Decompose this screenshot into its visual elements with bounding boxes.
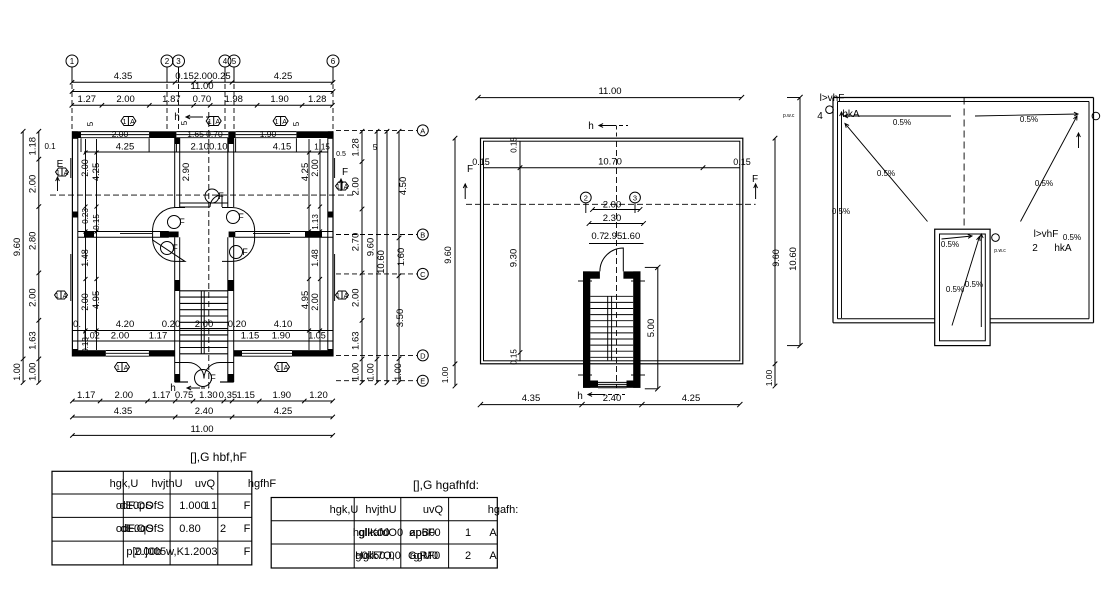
svg-text:2: 2 — [465, 550, 471, 562]
svg-text:1: 1 — [55, 293, 59, 300]
right plan left dim 10.60 — [787, 95, 803, 348]
right dim column room heights — [393, 129, 409, 385]
svg-text:2.00: 2.00 — [112, 129, 129, 139]
svg-text:1.18: 1.18 — [28, 137, 39, 156]
svg-text:1.000: 1.000 — [179, 500, 207, 512]
top dim row 3 line — [70, 103, 335, 107]
svg-text:2.40: 2.40 — [603, 393, 622, 404]
section mark h bottom — [170, 383, 209, 394]
svg-text:1.90: 1.90 — [260, 129, 277, 139]
svg-text:0.5%: 0.5% — [832, 207, 850, 216]
svg-text:0.70: 0.70 — [193, 94, 212, 105]
svg-text:0.5%: 0.5% — [965, 280, 983, 289]
top dim row 2 line 11.00 — [70, 89, 335, 93]
svg-text:10.60: 10.60 — [376, 250, 387, 274]
svg-text:2.00: 2.00 — [351, 288, 362, 307]
svg-text:F: F — [467, 164, 473, 175]
mid dim 0.70 2.95 1.60 overlap — [589, 231, 644, 244]
svg-text:6: 6 — [331, 57, 336, 66]
svg-text:2.00: 2.00 — [111, 331, 130, 342]
roof centerline dashed — [963, 98, 965, 230]
svg-text:9.60: 9.60 — [366, 238, 377, 257]
svg-text:4.50: 4.50 — [398, 177, 409, 196]
top wall black segments with window gaps — [72, 131, 333, 138]
svg-text:1: 1 — [70, 57, 75, 66]
svg-text:1.90: 1.90 — [272, 331, 291, 342]
svg-text:D: D — [420, 351, 426, 360]
rotated 0.15 labels top — [86, 120, 378, 158]
slope arrow top-left horizontal — [844, 114, 951, 127]
lintel tag top 1 — [121, 117, 136, 127]
mid grid bubbles 2 3 — [580, 192, 640, 213]
svg-text:A: A — [124, 365, 129, 372]
svg-text:GgM0: GgM0 — [408, 550, 438, 562]
svg-text:1: 1 — [208, 119, 212, 126]
roof drain top-left — [826, 106, 834, 114]
interior right vertical dim texts — [300, 159, 320, 311]
svg-text:1.05: 1.05 — [308, 331, 326, 341]
bottom dim row 1 — [70, 390, 335, 403]
grid bubble 6 — [327, 55, 339, 82]
mid centerline dashed — [616, 141, 618, 388]
section mark h top — [174, 112, 209, 123]
bulkhead right vertical line arrow — [979, 234, 983, 327]
svg-text:1: 1 — [122, 119, 126, 126]
svg-text:5: 5 — [86, 121, 95, 126]
svg-text:hkA: hkA — [1054, 243, 1072, 254]
stair shaft right wall — [228, 138, 234, 382]
svg-text:11.00: 11.00 — [598, 86, 621, 97]
svg-text:A: A — [282, 119, 287, 126]
svg-text:1.63: 1.63 — [28, 331, 39, 350]
svg-text:4.35: 4.35 — [114, 71, 133, 82]
stair treads — [180, 291, 228, 354]
svg-text:0.5%: 0.5% — [893, 118, 911, 127]
right table header text — [330, 504, 519, 516]
svg-text:4.35: 4.35 — [114, 406, 133, 417]
svg-text:4.35: 4.35 — [522, 393, 541, 404]
svg-text:p.w.c: p.w.c — [994, 248, 1006, 254]
interior left vertical dim texts — [80, 159, 102, 353]
svg-text:1: 1 — [56, 170, 60, 177]
svg-text:1.60: 1.60 — [396, 248, 407, 267]
svg-text:2: 2 — [584, 194, 588, 203]
svg-text:11.00: 11.00 — [190, 81, 213, 92]
svg-text:1.90: 1.90 — [273, 390, 292, 401]
svg-text:l>vhF: l>vhF — [1034, 229, 1059, 240]
svg-text:[],G hgafhfd:: [],G hgafhfd: — [413, 478, 479, 492]
svg-text:h: h — [588, 121, 594, 132]
svg-text:h: h — [577, 391, 583, 402]
svg-text:2.30: 2.30 — [603, 213, 622, 224]
svg-text:1.60: 1.60 — [622, 231, 641, 242]
section dashed vertical centerline — [208, 112, 210, 392]
svg-text:2.70: 2.70 — [351, 233, 362, 252]
svg-text:F: F — [172, 243, 178, 253]
svg-text:hvjthU: hvjthU — [151, 478, 182, 490]
mid shaft wall dim ticks — [578, 281, 645, 375]
svg-text:1.00: 1.00 — [393, 363, 403, 381]
svg-text:4.15: 4.15 — [273, 142, 292, 153]
left outer dim 9.60 1.00 — [12, 129, 25, 385]
svg-text:0.5%: 0.5% — [1063, 233, 1081, 242]
slope arrow right edge small — [1077, 133, 1081, 148]
svg-text:2.95: 2.95 — [604, 231, 623, 242]
hall door tag circles with F — [161, 211, 249, 259]
stair room door arc top — [205, 189, 224, 207]
svg-text:C: C — [420, 270, 426, 279]
svg-text:2.00: 2.00 — [80, 293, 90, 311]
svg-text:0.15: 0.15 — [733, 157, 751, 167]
svg-text:[],G hbf,hF: [],G hbf,hF — [190, 450, 247, 464]
svg-text:dE0qS: dE0qS — [120, 523, 153, 535]
mid section line F-F dashed — [463, 164, 758, 204]
top-centre small room bottom wall — [180, 203, 228, 207]
svg-text:4.25: 4.25 — [274, 406, 293, 417]
svg-text:F: F — [244, 523, 251, 535]
interior top room dim texts — [84, 129, 330, 153]
svg-text:0.15: 0.15 — [510, 137, 519, 153]
svg-text:4: 4 — [223, 57, 228, 66]
shaft bottom walls and door jambs — [175, 363, 234, 383]
svg-text:0.: 0. — [73, 319, 81, 330]
svg-text:2.80: 2.80 — [28, 232, 39, 251]
svg-text:1.17: 1.17 — [149, 331, 168, 342]
window tag right upper — [336, 182, 349, 191]
right table row 2 — [355, 550, 497, 562]
svg-text:glIK00: glIK00 — [358, 527, 389, 539]
svg-text:uvQ: uvQ — [195, 478, 216, 490]
svg-text:1: 1 — [465, 527, 471, 539]
svg-text:4.25: 4.25 — [91, 163, 102, 182]
svg-text:2.00: 2.00 — [603, 200, 622, 211]
interior horizontal wall — [78, 232, 333, 238]
svg-text:2.00: 2.00 — [310, 159, 320, 177]
roof outline inner — [838, 102, 1090, 319]
bottom dim row 2 — [70, 406, 335, 419]
svg-text:1.20: 1.20 — [309, 390, 328, 401]
svg-text:1.00: 1.00 — [764, 369, 774, 386]
svg-text:4.25: 4.25 — [274, 71, 293, 82]
svg-text:uvQ: uvQ — [423, 504, 444, 516]
svg-text:9.60: 9.60 — [443, 246, 453, 264]
mid section mark h top — [588, 121, 628, 138]
svg-text:1.48: 1.48 — [80, 249, 90, 267]
stair shaft left wall — [175, 138, 180, 382]
mid left dim 9.60 1.00 — [440, 136, 457, 388]
svg-text:A: A — [344, 293, 349, 300]
svg-text:2: 2 — [1032, 243, 1038, 254]
slope arrow diagonal right — [1021, 116, 1078, 222]
svg-text:2.00: 2.00 — [351, 177, 362, 196]
roof drain bulkhead — [992, 234, 1006, 254]
grid axis dashed leaders — [72, 84, 333, 131]
svg-text:1.00: 1.00 — [366, 363, 376, 381]
left table header text — [110, 478, 277, 490]
svg-text:5.00: 5.00 — [646, 319, 657, 338]
svg-text:2.00: 2.00 — [310, 293, 320, 311]
svg-text:hgk,U: hgk,U — [330, 504, 359, 516]
bulkhead top horizontal arrow — [941, 235, 972, 250]
svg-text:1.15: 1.15 — [236, 390, 255, 401]
svg-text:0,15: 0,15 — [510, 349, 519, 365]
top dim row 1 line — [70, 80, 335, 84]
svg-text:1.63: 1.63 — [351, 331, 362, 350]
mid inner dim 10.70 line — [472, 157, 751, 171]
window tag left lower — [55, 291, 68, 300]
mid dim 5.00 shaft — [645, 265, 661, 392]
svg-text:A: A — [64, 170, 69, 177]
interior left vertical dim lines — [84, 139, 99, 350]
svg-text:1.00: 1.00 — [28, 363, 39, 382]
svg-text:2: 2 — [165, 57, 170, 66]
svg-text:1: 1 — [116, 365, 120, 372]
svg-text:2.90: 2.90 — [181, 163, 192, 182]
window tag right lower — [336, 291, 349, 300]
grid bubble 4 — [219, 55, 231, 82]
svg-text:1.00: 1.00 — [351, 363, 362, 382]
svg-text:A: A — [130, 119, 135, 126]
svg-text:10.70: 10.70 — [598, 157, 622, 168]
slope arrow left edge vertical — [832, 112, 850, 318]
window tag left upper — [56, 168, 69, 177]
svg-text:0.15: 0.15 — [92, 214, 101, 230]
svg-text:3: 3 — [176, 57, 181, 66]
roof drain top-right — [1092, 112, 1100, 120]
svg-text:0.15: 0.15 — [472, 157, 490, 167]
mid stair door arc — [600, 248, 623, 271]
svg-text:hvjthU: hvjthU — [365, 504, 396, 516]
grid bubble 3 — [173, 55, 185, 82]
svg-text:2.00: 2.00 — [28, 175, 39, 194]
svg-text:hgafh:: hgafh: — [488, 504, 519, 516]
svg-text:2.40: 2.40 — [195, 406, 214, 417]
interior right vertical dim lines — [307, 139, 322, 350]
svg-text:4.20: 4.20 — [116, 319, 135, 330]
svg-text:1: 1 — [336, 293, 340, 300]
svg-text:0.80: 0.80 — [179, 523, 200, 535]
left table row 3 — [126, 546, 250, 558]
mid right dim 9.60 1.00 — [764, 136, 781, 388]
svg-text:A: A — [284, 365, 289, 372]
right dim column 1 — [351, 129, 365, 385]
svg-text:0.75: 0.75 — [175, 390, 194, 401]
svg-text:2.00: 2.00 — [28, 288, 39, 307]
svg-text:1: 1 — [211, 500, 217, 512]
svg-text:1.00: 1.00 — [440, 366, 450, 383]
svg-text:F: F — [210, 373, 216, 383]
svg-text:1.13: 1.13 — [311, 214, 320, 230]
svg-text:A: A — [420, 126, 425, 135]
svg-text:3: 3 — [633, 194, 637, 203]
grid bubble 1 — [66, 55, 78, 82]
svg-text:1.30: 1.30 — [199, 390, 218, 401]
right table row 1 — [353, 527, 497, 539]
svg-text:1.17: 1.17 — [77, 390, 96, 401]
svg-text:A: A — [63, 293, 68, 300]
mid roof slab outline — [481, 138, 743, 364]
svg-text:0.5%: 0.5% — [877, 169, 895, 178]
svg-text:hgk,U: hgk,U — [110, 478, 139, 490]
mid section mark h bottom — [577, 391, 625, 402]
mid stair shaft walls — [583, 271, 641, 387]
svg-text:1.17: 1.17 — [152, 390, 171, 401]
svg-text:4.10: 4.10 — [274, 319, 293, 330]
section dashed line E-E horizontal — [50, 159, 355, 195]
svg-text:A: A — [215, 119, 220, 126]
svg-text:hgfhF: hgfhF — [248, 478, 276, 490]
svg-text:5: 5 — [180, 120, 189, 125]
svg-text:1: 1 — [204, 500, 210, 512]
svg-text:F: F — [179, 217, 185, 227]
svg-text:g0k50,0: g0k50,0 — [355, 550, 394, 562]
svg-text:0.5%: 0.5% — [946, 285, 964, 294]
mid stair treads — [590, 296, 633, 360]
svg-text:1: 1 — [336, 184, 340, 191]
svg-text:1.28: 1.28 — [308, 94, 327, 105]
left inner dim column — [28, 129, 42, 385]
svg-text:9.60: 9.60 — [12, 238, 23, 257]
slope arrow top-right horizontal — [975, 112, 1078, 124]
right table frame — [271, 498, 497, 569]
svg-text:2.100.10: 2.100.10 — [191, 142, 228, 153]
svg-text:0.7: 0.7 — [591, 231, 604, 242]
svg-text:øpB0: øpB0 — [409, 527, 435, 539]
gutter note top-left — [817, 93, 860, 122]
mid dim 2.00 — [590, 200, 642, 212]
lintel tag bottom left — [115, 363, 130, 373]
svg-text:2.00: 2.00 — [116, 94, 135, 105]
svg-text:1.98: 1.98 — [224, 94, 243, 105]
svg-text:5: 5 — [232, 57, 237, 66]
window edge extension lines top — [81, 138, 296, 152]
svg-text:1.15: 1.15 — [314, 143, 330, 152]
mid bottom dim row — [478, 393, 743, 407]
svg-text:2: 2 — [220, 523, 226, 535]
roof outline outer — [833, 98, 1094, 323]
svg-text:1: 1 — [276, 365, 280, 372]
svg-text:l>vhF: l>vhF — [820, 93, 845, 104]
svg-text:0.5%: 0.5% — [1035, 179, 1053, 188]
left table frame — [52, 471, 252, 565]
interior dim row above bottom wall line 2 — [72, 331, 333, 342]
svg-text:10.60: 10.60 — [788, 247, 799, 271]
svg-text:0.5: 0.5 — [336, 151, 346, 158]
mid top dim 11.00 — [475, 86, 744, 100]
grid bubbles A-E right — [336, 125, 428, 386]
svg-text:B: B — [420, 231, 425, 240]
hall door swing cloverleaf — [153, 208, 255, 262]
svg-text:0.20: 0.20 — [228, 319, 247, 330]
svg-text:2.00: 2.00 — [115, 390, 134, 401]
bulkhead slope diagonal arrow — [946, 237, 983, 326]
svg-text:2.00: 2.00 — [80, 159, 90, 177]
svg-text:F: F — [218, 191, 224, 201]
mid dim 2.30 — [587, 213, 646, 226]
right dim column 10.60 — [376, 129, 389, 385]
stair bulkhead outer — [935, 229, 990, 345]
svg-text:h: h — [174, 112, 180, 123]
svg-text:11.00: 11.00 — [190, 424, 213, 435]
svg-text:9.30: 9.30 — [509, 249, 520, 268]
svg-text:hkA: hkA — [842, 109, 860, 120]
svg-text:dE0pS: dE0pS — [119, 500, 152, 512]
svg-text:1.27: 1.27 — [78, 94, 97, 105]
svg-text:1.15: 1.15 — [241, 331, 260, 342]
svg-text:p.w.c: p.w.c — [783, 113, 795, 119]
svg-text:E: E — [420, 377, 425, 386]
svg-text:2.00: 2.00 — [195, 319, 214, 330]
svg-text:0.20: 0.20 — [162, 319, 181, 330]
svg-text:0.35: 0.35 — [219, 390, 238, 401]
lintel tag bottom right — [275, 363, 290, 373]
svg-text:1.00: 1.00 — [12, 363, 22, 381]
svg-text:F: F — [244, 546, 251, 558]
svg-text:0.23: 0.23 — [81, 208, 90, 224]
svg-text:A: A — [489, 550, 497, 562]
svg-text:4: 4 — [817, 111, 823, 122]
grid bubble 5 — [228, 55, 240, 82]
svg-text:0.5%: 0.5% — [941, 240, 959, 249]
svg-text:2.00b: 2.00b — [134, 546, 162, 558]
svg-text:5: 5 — [292, 121, 301, 126]
svg-text:0.15: 0.15 — [81, 337, 90, 353]
interior dim row above bottom wall line 1 — [72, 319, 333, 331]
left table row 2 — [116, 523, 251, 535]
svg-text:9.60: 9.60 — [771, 249, 781, 267]
slope arrow diagonal left — [845, 124, 928, 222]
svg-text:1.65 0.70: 1.65 0.70 — [187, 129, 223, 139]
svg-text:0.1: 0.1 — [44, 142, 56, 151]
top dim row 3 texts — [78, 94, 327, 105]
svg-text:1.28: 1.28 — [351, 138, 362, 157]
bottom wall black segments with window gaps — [72, 350, 333, 356]
bottom dim row 3 11.00 — [70, 424, 335, 438]
svg-text:0.5%: 0.5% — [1020, 115, 1038, 124]
svg-text:1.87: 1.87 — [162, 94, 181, 105]
right wall double line — [328, 131, 335, 356]
svg-text:F: F — [238, 212, 244, 222]
grid bubble 2 — [161, 55, 173, 82]
svg-text:A: A — [344, 184, 349, 191]
svg-text:A: A — [489, 527, 497, 539]
right dim column 9.60 — [366, 129, 380, 385]
svg-text:4.25: 4.25 — [300, 163, 311, 182]
gutter note right — [1032, 229, 1081, 254]
svg-text:4.95: 4.95 — [91, 291, 102, 310]
left wall double line — [71, 131, 78, 356]
svg-text:1.90: 1.90 — [270, 94, 289, 105]
svg-text:4.95: 4.95 — [300, 291, 311, 310]
svg-text:F: F — [244, 500, 251, 512]
svg-text:1: 1 — [275, 119, 279, 126]
lintel tag top 2 — [206, 117, 221, 127]
left table row 1 — [116, 500, 251, 512]
svg-text:1.48: 1.48 — [310, 249, 320, 267]
svg-text:F: F — [752, 174, 758, 185]
svg-text:4.25: 4.25 — [116, 142, 135, 153]
svg-text:F: F — [242, 247, 248, 257]
lintel tag top 3 — [273, 117, 288, 127]
svg-text:4.25: 4.25 — [682, 393, 701, 404]
svg-text:3.50: 3.50 — [395, 309, 406, 328]
entrance double door arcs — [188, 363, 220, 387]
mid interior vertical dim 9.30 — [509, 137, 523, 365]
svg-text:F: F — [342, 167, 348, 178]
